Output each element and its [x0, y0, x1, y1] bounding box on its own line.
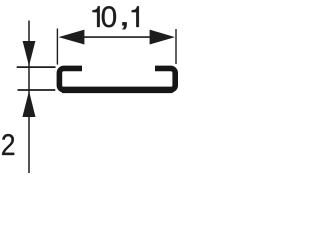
- top tick of thickness dimension: [17, 66, 56, 68]
- up arrowhead: [22, 91, 35, 117]
- vertical dimension line (shaft): [28, 21, 30, 174]
- left extension line: [56, 29, 58, 65]
- C-channel profile outline: [59, 68, 175, 89]
- bottom tick of thickness dimension: [18, 89, 56, 91]
- right arrowhead: [150, 30, 175, 45]
- left arrowhead: [59, 30, 85, 45]
- down arrowhead: [23, 41, 36, 66]
- dimension label 10,1 : digit 1: [92, 6, 99, 27]
- dimension label 10,1 : digit 1: [132, 6, 139, 27]
- horizontal dimension line: [80, 36, 152, 38]
- right extension line: [175, 29, 177, 64]
- technical drawing: C-channel profile cross-section with dimensions: [0, 0, 178, 174]
- bottom web of profile (thicker): [62, 87, 173, 94]
- dimension label 2: [2, 134, 14, 155]
- dimension label 10,1 : digit 0: [102, 6, 116, 27]
- dimension label 10,1 : comma: [122, 22, 126, 29]
